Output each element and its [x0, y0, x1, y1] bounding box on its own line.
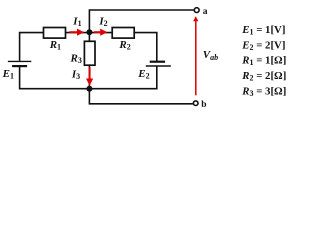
node (bottom, at R3/rail junction)	[86, 86, 92, 92]
svg-text:b: b	[201, 100, 206, 110]
wire: main horizontal left segment E1 corner to R1	[20, 33, 44, 61]
terminal a	[194, 8, 199, 13]
current arrow I3	[89, 67, 91, 79]
wire: E1 bottom to bottom rail to E2 bottom	[20, 66, 157, 89]
wire: b branch from bottom node down and right to terminal b	[89, 89, 192, 104]
svg-text:R3 = 3[Ω]: R3 = 3[Ω]	[241, 85, 286, 98]
wire: top rail from node riser to terminal a	[89, 10, 193, 33]
wire: R2 to E2 branch corner and down to battery	[135, 33, 157, 61]
svg-text:E2 = 2[V]: E2 = 2[V]	[241, 39, 285, 52]
resistor R2	[112, 28, 134, 39]
battery E2 (short thick plate top, long plate bottom)	[150, 61, 165, 63]
wire: node to R2	[89, 32, 112, 34]
node (top, at R1/R2/R3 junction)	[86, 29, 92, 35]
current arrow I1	[69, 31, 78, 33]
battery E1 (long plate top, short thick plate bottom)	[8, 60, 31, 62]
current arrow I2	[94, 31, 101, 33]
svg-text:E1 = 1[V]: E1 = 1[V]	[241, 24, 285, 37]
terminal b	[193, 101, 198, 106]
resistor R3	[84, 41, 95, 65]
svg-text:R2 = 2[Ω]: R2 = 2[Ω]	[241, 70, 286, 83]
voltage arrow Vab	[195, 21, 197, 96]
wire: R1 to node	[66, 32, 90, 34]
svg-text:a: a	[203, 7, 208, 17]
wire: R3 vertical through branch node to node	[88, 33, 90, 89]
resistor R1	[44, 28, 66, 39]
svg-text:R1 = 1[Ω]: R1 = 1[Ω]	[241, 55, 286, 68]
